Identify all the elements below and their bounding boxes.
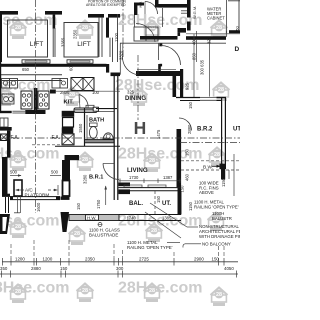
dim arrow BR1 south <box>105 186 107 205</box>
svg-text:UT.: UT. <box>162 201 171 207</box>
svg-text:BALUSTR: BALUSTR <box>212 216 232 221</box>
water meter cabinet west wall <box>187 0 191 18</box>
meter cabinet side lines <box>181 10 187 12</box>
BR1 east wall stubs <box>119 183 131 187</box>
svg-text:1740: 1740 <box>127 216 137 221</box>
svg-text:460: 460 <box>185 173 190 181</box>
service column cabinet <box>63 118 74 128</box>
A/C platform unit <box>14 180 22 196</box>
sink X box 2 <box>83 78 94 91</box>
wall between lifts <box>53 15 56 29</box>
svg-text:2350: 2350 <box>73 29 78 39</box>
BR2 east wall <box>221 98 223 169</box>
lift top wall bar A <box>2 11 18 15</box>
F.A. duct box on west wall <box>1 134 8 141</box>
kitchen bottom wall <box>0 111 12 113</box>
svg-text:1750: 1750 <box>96 199 101 209</box>
bottom dimension row 1 line <box>2 261 238 263</box>
toilet <box>90 123 98 126</box>
svg-text:3355: 3355 <box>61 37 66 47</box>
top wall to water meter <box>159 4 188 8</box>
dining north wall <box>136 71 180 76</box>
row2 ticks <box>2 271 237 278</box>
svg-text:LIVING: LIVING <box>127 167 148 174</box>
row1 ticks <box>3 258 225 266</box>
foyer west line <box>119 43 121 74</box>
west wall black bar <box>0 127 12 131</box>
svg-text:150: 150 <box>156 195 161 203</box>
right edge lines <box>238 0 240 30</box>
svg-text:300 635: 300 635 <box>200 59 205 75</box>
bath cistern small rect <box>93 107 98 111</box>
svg-text:LIFT: LIFT <box>30 41 44 48</box>
svg-text:4050: 4050 <box>224 266 234 271</box>
bath walls <box>84 108 86 146</box>
drainage symbol <box>98 223 102 227</box>
entrance door arc top <box>145 2 158 15</box>
stove left unit 1 <box>21 91 32 109</box>
svg-text:1600: 1600 <box>36 202 41 212</box>
svg-text:600: 600 <box>69 63 74 71</box>
svg-text:150: 150 <box>76 202 81 210</box>
svg-text:BALUSTRADE: BALUSTRADE <box>89 233 118 238</box>
vestibule closet <box>134 27 158 41</box>
dashed divider bal/ut <box>154 191 156 214</box>
dim vline x194 <box>193 34 195 97</box>
bay window pier black with arrow <box>221 165 225 180</box>
svg-text:320: 320 <box>207 36 212 44</box>
svg-text:1200: 1200 <box>15 256 25 261</box>
svg-text:3280: 3280 <box>83 174 88 184</box>
svg-text:UT: UT <box>233 127 240 133</box>
kitchen partition T bottom bar <box>25 110 45 114</box>
service column black bar top <box>62 111 74 117</box>
dining wall top face line <box>137 68 176 70</box>
sink X box 1 <box>71 78 83 91</box>
svg-text:KIT.: KIT. <box>64 100 75 106</box>
svg-text:2800: 2800 <box>60 90 70 95</box>
svg-text:1200: 1200 <box>43 256 53 261</box>
svg-text:W.G.M.: W.G.M. <box>192 6 197 19</box>
west outer wall below kitchen <box>7 131 11 158</box>
svg-text:CABINET: CABINET <box>207 16 225 21</box>
left unit kitchen counter boxes <box>2 79 10 89</box>
service column black bar mid <box>62 128 74 134</box>
sliding door band living/bal <box>119 187 182 189</box>
svg-text:1150: 1150 <box>221 177 226 187</box>
svg-text:5475: 5475 <box>156 129 161 139</box>
service column F.A. X box <box>62 134 74 145</box>
bath/BR1 east wall <box>113 109 115 200</box>
entry door arc to dining <box>122 57 137 75</box>
sliding door track bath <box>74 108 97 112</box>
left outer wall edge line <box>0 62 2 113</box>
svg-text:2880: 2880 <box>31 266 41 271</box>
lift car 1 <box>8 20 48 57</box>
svg-text:150: 150 <box>185 148 190 156</box>
WATERMARKS <box>0 12 230 306</box>
svg-text:150: 150 <box>180 185 185 193</box>
arrow to unit <box>16 189 24 191</box>
west wall window <box>0 118 8 127</box>
svg-text:500: 500 <box>51 170 59 175</box>
wall pier at entrance <box>155 0 159 8</box>
B.W. corner black <box>220 164 226 170</box>
svg-text:B.R.2: B.R.2 <box>197 127 213 133</box>
counter end black block <box>50 90 56 94</box>
svg-text:2880: 2880 <box>187 124 192 134</box>
svg-text:W.M.: W.M. <box>139 1 143 8</box>
svg-text:H: H <box>134 118 147 138</box>
svg-text:2900: 2900 <box>194 256 204 261</box>
foyer L wall <box>134 3 137 16</box>
svg-text:PLATFORM: PLATFORM <box>25 193 50 198</box>
bottom dimension row 2 line <box>0 273 238 275</box>
dim line top right <box>186 33 240 35</box>
corridor lines below lifts <box>0 74 62 76</box>
svg-text:3320: 3320 <box>119 50 124 60</box>
svg-text:650: 650 <box>22 67 30 72</box>
door stop block <box>160 64 163 67</box>
svg-text:WITH DRAINAGE PIP: WITH DRAINAGE PIP <box>199 234 240 239</box>
BR2 top wall <box>176 97 226 99</box>
BR2 west black pier <box>180 69 183 97</box>
lift door 1 <box>22 60 50 63</box>
basin <box>103 133 114 139</box>
wall between stoves <box>34 88 38 110</box>
platform lines <box>14 212 20 214</box>
svg-text:300: 300 <box>116 266 124 271</box>
BR2 door arc <box>179 118 192 131</box>
counter boxes right of corridor <box>52 79 60 89</box>
arrow right with tick <box>48 189 57 191</box>
threshold black mark <box>159 43 162 46</box>
lift shaft right wall lines <box>98 18 100 57</box>
dashed line right B.W. rows <box>181 160 240 162</box>
living dim line <box>119 180 181 182</box>
BR2 top wall window gap <box>200 97 217 102</box>
centerline horizontal right 1 <box>180 142 240 144</box>
svg-text:RAILING 'OPEN TYPE': RAILING 'OPEN TYPE' <box>194 205 239 210</box>
svg-text:1100: 1100 <box>114 32 119 42</box>
dining door arc <box>161 46 181 66</box>
svg-text:NO BALCONY: NO BALCONY <box>202 242 231 247</box>
centerline vertical lift1 <box>35 0 37 213</box>
thin corridor line <box>120 42 226 44</box>
lift lobby outer wall left edge <box>0 11 2 62</box>
svg-text:D: D <box>235 46 240 53</box>
left unit kitchen sink circles <box>2 94 14 104</box>
cabinet right boundary line <box>226 0 228 33</box>
service column step wall <box>65 155 80 160</box>
vestibule door arc <box>136 24 155 43</box>
wall stem right of lift 2 <box>106 18 109 38</box>
left unit bedroom south window <box>10 196 60 198</box>
svg-text:500: 500 <box>10 170 18 175</box>
centerline vertical foyer <box>122 0 124 58</box>
svg-text:925: 925 <box>185 82 190 90</box>
black wedge fin left <box>0 214 10 234</box>
BR1 door arc <box>103 164 119 180</box>
svg-text:150: 150 <box>188 101 193 109</box>
diagonal leader 1 <box>150 203 187 227</box>
svg-text:PORTION OF COMMON: PORTION OF COMMON <box>88 0 126 3</box>
svg-text:325: 325 <box>127 90 135 95</box>
black wedge fin right <box>61 212 70 232</box>
svg-text:B.W.: B.W. <box>203 165 213 171</box>
svg-text:B.R.1: B.R.1 <box>89 175 103 181</box>
stove unit H <box>38 91 49 109</box>
svg-text:H.W.: H.W. <box>87 216 97 221</box>
svg-text:2725: 2725 <box>139 256 149 261</box>
svg-text:350: 350 <box>0 266 8 271</box>
svg-text:LIFT: LIFT <box>77 41 91 48</box>
svg-text:RAILING 'OPEN TYPE': RAILING 'OPEN TYPE' <box>127 245 173 250</box>
lift top wall bar B <box>45 11 62 15</box>
svg-text:1730: 1730 <box>129 175 139 180</box>
window end caps <box>10 196 13 200</box>
svg-text:1550: 1550 <box>78 123 83 133</box>
centerline vertical dining <box>137 55 139 120</box>
H.W. gap <box>86 215 99 220</box>
dim vline x196 <box>196 40 198 62</box>
lift top wall bar C <box>88 14 104 18</box>
window jamb piece <box>63 181 70 197</box>
centerline horizontal main <box>0 137 240 139</box>
extension lines above row1 <box>11 240 224 258</box>
svg-text:AREA TO BE EXEMPTED: AREA TO BE EXEMPTED <box>86 3 126 7</box>
corridor/dining wall corner <box>111 73 121 77</box>
svg-text:2350: 2350 <box>85 256 95 261</box>
BR2 west wall <box>177 129 182 187</box>
wall stub dining <box>158 64 161 71</box>
bath top small rect <box>86 105 94 108</box>
svg-text:28Hse.com: 28Hse.com <box>118 280 203 297</box>
dashed line left A/C <box>32 144 60 146</box>
right thin verticals <box>233 154 235 196</box>
stepped corridor north wall <box>140 36 178 40</box>
wall pier dining/BR2 <box>173 75 177 98</box>
svg-text:150: 150 <box>212 256 220 261</box>
UT east wall extension <box>178 187 182 214</box>
balcony front band <box>69 215 119 221</box>
svg-text:150: 150 <box>60 266 68 271</box>
svg-text:1387: 1387 <box>163 175 173 180</box>
bath bottom wall band <box>85 140 115 143</box>
wall stub top right <box>229 30 240 33</box>
lift bottom wall band <box>0 64 107 67</box>
lift car 2 <box>64 23 98 58</box>
lift door 2 <box>67 60 93 63</box>
vestibule side lines <box>162 8 164 27</box>
svg-text:100: 100 <box>92 90 100 95</box>
diagonal leader 2 <box>145 212 181 238</box>
svg-text:ABOVE: ABOVE <box>199 190 214 195</box>
svg-text:DINING: DINING <box>125 96 146 102</box>
svg-text:1150: 1150 <box>188 201 193 211</box>
kitchen door arc <box>79 95 88 109</box>
svg-text:BAL.: BAL. <box>129 201 143 207</box>
